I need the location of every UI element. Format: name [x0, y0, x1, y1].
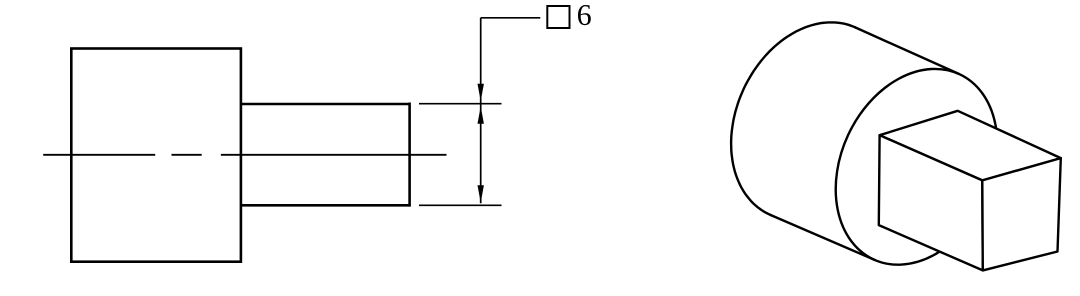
arrowhead down onto top extension line [478, 84, 484, 101]
2D front view: square boss bottom edge [241, 204, 410, 207]
square boss front-left face [879, 135, 983, 270]
center line dash 3 [221, 154, 447, 156]
top silhouette tangent line of cylinder [855, 27, 959, 74]
bottom silhouette tangent line of cylinder [771, 215, 875, 260]
top extension line [419, 103, 502, 105]
2D front view: large rectangle (cylinder body) [71, 49, 241, 262]
square symbol of dimension [547, 6, 569, 28]
center line dash 2 [172, 154, 202, 156]
rear face arc of cylinder [731, 22, 855, 215]
square boss top face [880, 111, 1061, 181]
center line dash 1 [43, 154, 155, 156]
arrowhead down onto bottom extension line [478, 185, 484, 203]
arrowhead up from below top extension line [478, 106, 484, 124]
bottom extension line [419, 204, 502, 206]
dimension text 6 [578, 5, 591, 25]
2D front view: square boss right edge [408, 103, 411, 207]
leader horizontal line [481, 17, 541, 19]
dimension/leader vertical line [480, 18, 482, 204]
2D front view: square boss top edge [241, 103, 410, 106]
front face ellipse of cylinder [805, 42, 1028, 291]
square boss right end face [982, 158, 1061, 270]
